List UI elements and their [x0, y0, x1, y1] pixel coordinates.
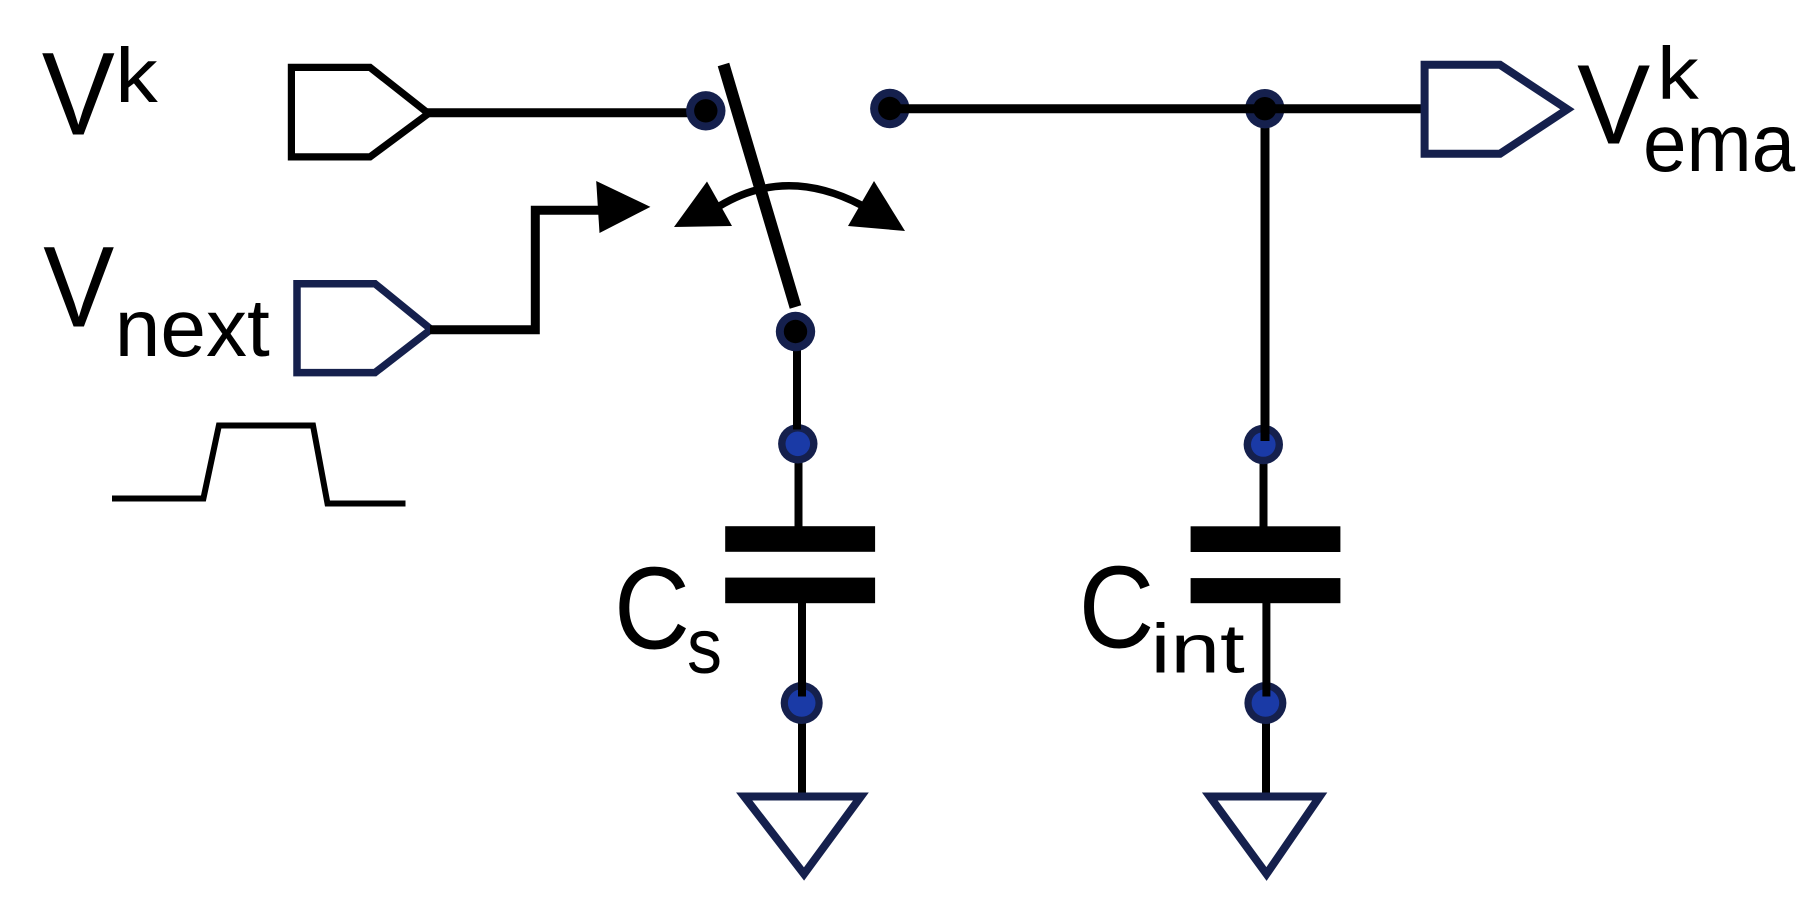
ground symbol (Cint): [1210, 797, 1320, 875]
wire main junction down to Cint node (over dot ring, under junction dot): [1261, 108, 1270, 441]
switch SW bar: [724, 65, 796, 308]
wire Cs bottom plate to ground node (over dot ring): [798, 603, 806, 697]
svg-text:C: C: [614, 542, 690, 673]
wire Cint bottom plate to ground node (over dot ring): [1262, 603, 1270, 697]
label Cint: [1079, 542, 1245, 688]
svg-text:V: V: [42, 29, 115, 161]
wire Vk port to switch pole: [427, 108, 706, 117]
node: main output junction (dot, black core): [1245, 89, 1284, 128]
pulse waveform (control signal): [112, 426, 406, 504]
label Vnext (control net name): [43, 224, 270, 374]
port Vnext (control input port symbol): [297, 284, 431, 373]
port Vema (output port symbol): [1425, 65, 1568, 154]
svg-text:V: V: [43, 224, 114, 352]
node: switch pole (dot, black core): [686, 91, 725, 130]
label Cs: [614, 542, 722, 689]
wire Cint ground node to ground (under dot): [1262, 703, 1270, 799]
svg-text:C: C: [1079, 542, 1155, 673]
port V^k (input port symbol): [291, 67, 428, 156]
svg-text:int: int: [1151, 609, 1245, 687]
svg-text:next: next: [115, 283, 270, 374]
wire Vnext port to switch control arrow: [430, 210, 600, 329]
capacitor Cint top plate: [1191, 526, 1341, 552]
svg-text:V: V: [1577, 42, 1650, 169]
ground symbol (Cs): [744, 797, 861, 875]
capacitor Cs top plate: [725, 526, 875, 552]
wire Cint node down to capacitor top (under dot): [1260, 448, 1268, 527]
control arrowhead: [596, 181, 650, 233]
node: Cint ground terminal (dot, blue core): [1244, 682, 1286, 724]
wire switch throw to output port: [890, 104, 1424, 113]
node: Cs top terminal (dot, blue core): [778, 424, 817, 463]
node: switch throw output (dot, black core): [870, 89, 909, 128]
svg-text:s: s: [687, 603, 722, 689]
node: Cint top terminal (dot, blue core): [1244, 425, 1283, 464]
node: Cs ground terminal (dot, blue core): [781, 682, 823, 724]
capacitor Cs bottom plate: [725, 578, 875, 604]
node: switch bottom terminal (dot, black core): [776, 312, 815, 351]
capacitor Cint bottom plate: [1191, 578, 1341, 603]
svg-text:ema: ema: [1643, 98, 1796, 189]
switch toggle arc: [720, 186, 862, 206]
wire Cs ground node to ground (under dot): [798, 703, 806, 799]
label Vema^k (output net name): [1577, 32, 1796, 189]
wire Cs node to capacitor top (under dot): [795, 444, 803, 527]
toggle arc arrowhead left: [674, 182, 732, 228]
toggle arc arrowhead right: [848, 181, 905, 231]
svg-text:k: k: [115, 33, 158, 119]
wire switch bottom to Cs node (over dot ring): [793, 335, 801, 430]
label Vk (input net name): [42, 29, 159, 161]
